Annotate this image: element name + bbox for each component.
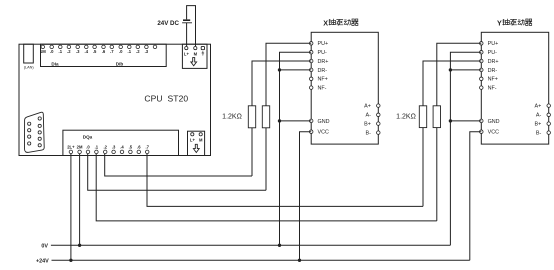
DI terminal pin 6 <box>85 45 89 54</box>
svg-text:M: M <box>199 138 203 143</box>
DI terminal pin 13 <box>145 45 149 54</box>
DB9 pin right 4 <box>38 137 41 140</box>
svg-text:DR+: DR+ <box>318 59 329 65</box>
value label 1.2Kohm (X) <box>222 114 242 121</box>
PLC logic supply box (bottom L+ M) <box>188 131 205 155</box>
wire X DR- branch <box>280 69 312 71</box>
svg-text:PU-: PU- <box>488 50 497 56</box>
DQ terminal .4 <box>120 144 124 153</box>
Y driver pin PU+ <box>480 41 499 47</box>
svg-text:GND: GND <box>318 119 330 125</box>
DQ terminal .3 <box>112 144 116 153</box>
terminal M (top) <box>194 47 198 57</box>
svg-text:1M: 1M <box>40 49 46 54</box>
wire Y PU- / DR- / GND common to 0V <box>450 52 481 245</box>
DB9 pin left 3 <box>28 135 31 138</box>
resistor R3 1.2K <box>419 106 426 207</box>
svg-text:B-: B- <box>536 131 542 137</box>
X driver pin B+ <box>364 122 380 128</box>
svg-text:L+: L+ <box>190 138 196 143</box>
svg-text:NF-: NF- <box>488 86 497 92</box>
DI terminal pin 5 <box>76 45 80 54</box>
wire Y DR- branch <box>450 69 481 71</box>
wire DQ .2 to resistor R1 (X DR+) <box>105 154 252 176</box>
svg-text:B-: B- <box>366 131 372 137</box>
Y driver pin DR+ <box>480 59 499 65</box>
svg-text:0V: 0V <box>41 243 48 249</box>
Y driver pin B- <box>536 131 551 137</box>
DI terminal pin 12 <box>136 45 140 54</box>
Y-axis driver box <box>481 32 548 144</box>
svg-text:X: X <box>323 18 328 27</box>
junction Y DR- <box>449 68 452 71</box>
svg-text:M: M <box>194 52 198 57</box>
Y driver pin DR- <box>480 68 498 74</box>
DB9 pin right 2 <box>38 124 41 127</box>
label DIa <box>51 62 59 67</box>
svg-text:NF+: NF+ <box>488 77 498 83</box>
battery 24V DC <box>182 20 192 23</box>
0V rail <box>51 244 451 246</box>
DQ terminal .0 <box>86 144 90 153</box>
DI terminal pin 7 <box>93 45 97 54</box>
DI terminal pin 14 <box>153 45 157 49</box>
wire battery top to M <box>187 6 196 47</box>
value label 1.2Kohm (Y) <box>396 114 416 121</box>
wire R1 top to X DR+ <box>252 61 311 106</box>
DB9 pin left 4 <box>28 142 31 145</box>
DB9 port connector <box>25 112 45 152</box>
junction 2M on 0V rail <box>78 244 81 247</box>
label DIb <box>116 62 124 67</box>
DQ terminal .1 <box>95 144 99 153</box>
junction X DR- <box>278 68 281 71</box>
X driver pin PU- <box>309 50 327 56</box>
wire X VCC to +24V <box>300 132 312 261</box>
DI terminal pin 10 <box>119 45 123 54</box>
LAN port box <box>24 44 35 69</box>
DB9 pin right 1 <box>38 117 41 120</box>
functional earth pad <box>201 46 204 55</box>
svg-text:(LAN): (LAN) <box>24 65 35 69</box>
svg-text:VCC: VCC <box>488 130 499 136</box>
DQ terminal 2M <box>77 144 83 153</box>
junction X GND <box>278 119 281 122</box>
svg-text:DIa: DIa <box>51 62 59 67</box>
DQ terminal .5 <box>129 144 133 153</box>
svg-text:CPU ST20: CPU ST20 <box>144 93 188 103</box>
junction X common on 0V rail <box>278 244 281 247</box>
Y driver pin PU- <box>480 50 498 56</box>
X driver pin A+ <box>364 104 380 110</box>
X driver pin NF+ <box>309 77 327 83</box>
wire Y GND branch <box>450 120 481 122</box>
Y driver pin B+ <box>535 122 551 128</box>
svg-text:2L+: 2L+ <box>67 144 75 149</box>
svg-text:B+: B+ <box>535 122 542 128</box>
wire R3 top to Y DR+ <box>423 61 481 106</box>
wire DQ .7 to resistor R3 (Y DR+) <box>147 154 423 207</box>
down arrow (bottom power box) <box>193 144 199 152</box>
DB9 pin right 3 <box>38 131 41 134</box>
svg-text:DIb: DIb <box>116 62 124 67</box>
DI terminal pin 8 <box>102 45 106 54</box>
svg-text:B+: B+ <box>364 122 371 128</box>
Y driver pin NF+ <box>480 77 498 83</box>
DQ terminal .2 <box>103 144 107 153</box>
X driver pin DR+ <box>309 59 328 65</box>
wire battery bottom to L+ <box>186 23 188 47</box>
resistor R1 1.2K <box>248 106 255 176</box>
wire DQ .1 to resistor R4 (Y PU+) <box>96 154 437 221</box>
PLC sensor supply box (top L+ M) <box>182 44 207 68</box>
PLC label CPU ST20 <box>144 93 188 103</box>
svg-text:NF+: NF+ <box>318 77 328 83</box>
svg-text:A-: A- <box>536 113 542 119</box>
svg-text:DR-: DR- <box>488 68 498 74</box>
DB9 pin right 5 <box>38 144 41 147</box>
Y driver pin A- <box>536 113 551 119</box>
svg-text:PU-: PU- <box>318 50 327 56</box>
X driver pin VCC <box>309 130 329 136</box>
DI terminal pin 2 <box>50 45 54 54</box>
DQ terminal 2L+ <box>67 144 75 153</box>
+24V rail <box>52 259 470 261</box>
X driver pin DR- <box>309 68 327 74</box>
svg-text:+24V: +24V <box>36 258 49 264</box>
title X-axis driver (X轴驱动器) <box>323 18 358 27</box>
DI terminal pin 9 <box>110 45 114 54</box>
svg-text:PU+: PU+ <box>488 41 499 47</box>
wire X GND branch <box>280 120 312 122</box>
label 0V <box>41 243 48 249</box>
label +24V <box>36 258 49 264</box>
DQ terminal block box <box>63 130 179 155</box>
DQ terminal .7 <box>145 144 149 153</box>
DI terminal pin 1 <box>40 45 46 54</box>
svg-text:L+: L+ <box>184 52 190 57</box>
DI terminal pin 11 <box>128 45 132 54</box>
X driver pin PU+ <box>309 41 328 47</box>
svg-text:1.2KΩ: 1.2KΩ <box>222 114 242 121</box>
terminal L+ (top) <box>184 47 190 57</box>
X-axis driver box <box>311 32 378 144</box>
svg-text:24V DC: 24V DC <box>157 20 179 27</box>
terminal L+ (bottom) <box>190 133 196 143</box>
svg-text:A+: A+ <box>364 104 371 110</box>
wire Y VCC to +24V <box>470 132 482 261</box>
DI terminal pin 3 <box>59 45 63 54</box>
wire R4 top to Y PU+ <box>437 43 482 106</box>
wire DQ .0 to resistor R2 (X PU+) <box>88 154 266 190</box>
resistor R2 1.2K <box>262 106 269 190</box>
svg-text:DQa: DQa <box>83 135 93 140</box>
svg-text:GND: GND <box>488 119 500 125</box>
DB9 pin left 2 <box>28 129 31 132</box>
X driver pin NF- <box>309 86 326 92</box>
DB9 pin left 1 <box>28 122 31 125</box>
wire DQ 2L+ to +24V <box>70 154 72 260</box>
title Y-axis driver (Y轴驱动器) <box>497 18 532 27</box>
svg-text:VCC: VCC <box>318 130 329 136</box>
svg-text:2M: 2M <box>77 144 83 149</box>
DI terminal pin 4 <box>67 45 71 54</box>
X driver pin GND <box>309 119 329 125</box>
svg-text:DR-: DR- <box>318 68 328 74</box>
junction Y GND <box>449 119 452 122</box>
svg-text:1.2KΩ: 1.2KΩ <box>396 114 416 121</box>
svg-text:A-: A- <box>366 113 372 119</box>
svg-text:NF-: NF- <box>318 86 327 92</box>
down arrow (top power box) <box>191 58 197 66</box>
Y driver pin GND <box>480 119 500 125</box>
svg-text:DR+: DR+ <box>488 59 499 65</box>
label DQa <box>83 135 93 140</box>
X driver pin B- <box>366 131 381 137</box>
svg-text:A+: A+ <box>535 104 542 110</box>
wire X PU- / DR- / GND common to 0V <box>280 52 312 245</box>
Y driver pin A+ <box>535 104 551 110</box>
terminal M (bottom) <box>199 133 203 143</box>
DQ terminal .6 <box>137 144 141 153</box>
Y driver pin VCC <box>480 130 500 136</box>
svg-text:PU+: PU+ <box>318 41 329 47</box>
junction X VCC on +24V rail <box>298 259 301 262</box>
junction 2L+ on +24V rail <box>69 259 72 262</box>
X driver pin A- <box>366 113 381 119</box>
Y driver pin NF- <box>480 86 497 92</box>
wire R2 top to X PU+ <box>266 43 311 106</box>
wire DQ 2M to 0V <box>79 154 81 245</box>
24V DC source label <box>157 20 179 27</box>
svg-text:Y: Y <box>497 18 502 27</box>
PLC CPU ST20 outline <box>19 44 211 155</box>
resistor R4 1.2K <box>433 106 440 221</box>
DI terminal block box <box>41 44 167 66</box>
